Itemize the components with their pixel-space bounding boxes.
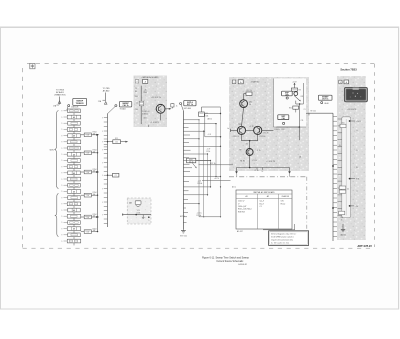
svg-text:4 SWP BD: 4 SWP BD: [251, 82, 260, 84]
svg-text:4: 4: [137, 81, 138, 83]
wire stub 2 into chart area: [289, 174, 291, 177]
svg-text:R1 R2: R1 R2: [240, 161, 245, 163]
svg-text:+4.3 V: +4.3 V: [214, 178, 220, 180]
svg-text:C31: C31: [301, 120, 304, 122]
coax connector P102: [108, 105, 117, 114]
capacitor C201: [107, 173, 119, 177]
wire connector to ladder: [181, 105, 183, 111]
svg-text:1 C4010: 1 C4010: [274, 129, 280, 131]
svg-text:C2: C2: [356, 191, 358, 193]
board ref boxes A4: [135, 79, 148, 83]
svg-text:TO A04: TO A04: [120, 108, 126, 111]
svg-text:10k: 10k: [115, 142, 118, 144]
wire control to right rail: [289, 101, 304, 113]
svg-text:R40: R40: [135, 96, 138, 98]
svg-text:Section 7B53: Section 7B53: [340, 68, 357, 72]
chassis dash-dot boundary: [229, 155, 307, 229]
svg-text:10k: 10k: [206, 115, 209, 117]
+15V feed in control box: [292, 81, 297, 88]
wire to notes box: [263, 224, 295, 230]
svg-text:R6: R6: [339, 145, 341, 147]
svg-text:10k: 10k: [87, 172, 90, 174]
svg-text:C*: C*: [238, 203, 240, 205]
junction dot mid (S10): [349, 178, 360, 181]
svg-text:10k: 10k: [87, 135, 90, 137]
svg-text:CAL: CAL: [282, 117, 285, 120]
svg-text:S(W): S(W): [49, 150, 53, 152]
svg-text:R31: R31: [289, 108, 292, 110]
resistor R310 stack: [291, 88, 300, 91]
svg-text:9: 9: [61, 210, 62, 212]
wire Q40 emitter down: [149, 113, 161, 127]
vertical wires from ladder to lower bus: [199, 107, 221, 217]
svg-text:9: 9: [61, 129, 62, 131]
sub-ladder rung +1V: [205, 113, 221, 138]
relay K1 dashed enclosure: [127, 198, 151, 224]
svg-text:R60: R60: [342, 122, 345, 124]
svg-text:9: 9: [61, 135, 62, 137]
svg-text:C4: C4: [135, 88, 137, 90]
svg-text:EXT 1k: EXT 1k: [187, 104, 193, 106]
notes box: [269, 231, 309, 246]
svg-text:EXT A40: EXT A40: [184, 107, 191, 110]
svg-text:9: 9: [61, 117, 62, 119]
svg-text:9: 9: [61, 173, 62, 175]
resistor R601: [340, 122, 346, 127]
svg-text:CAL 1k: CAL 1k: [123, 104, 129, 107]
label box EXT ATTEN: [184, 100, 196, 109]
svg-text:OUT 1k: OUT 1k: [322, 99, 328, 101]
svg-text:6: 6: [340, 82, 341, 84]
svg-text:A5 437: A5 437: [237, 230, 243, 233]
svg-text:TP12: TP12: [238, 124, 242, 126]
svg-text:C1 4k: C1 4k: [254, 170, 258, 172]
svg-text:COIL: COIL: [137, 212, 141, 214]
svg-text:R51-2: R51-2: [281, 203, 286, 205]
svg-text:10k: 10k: [87, 195, 90, 197]
wire Q40 collector right: [165, 108, 172, 110]
svg-text:R 1k: R 1k: [207, 151, 211, 153]
svg-text:R9 10k: R9 10k: [310, 110, 316, 112]
svg-text:10k: 10k: [93, 151, 96, 153]
circuit board A4 shaded area: [134, 76, 168, 128]
svg-text:9: 9: [61, 185, 62, 187]
svg-text:R154: R154: [93, 214, 97, 216]
svg-text:AB 10k: AB 10k: [340, 233, 346, 236]
wire from S2 to relay K1: [122, 213, 151, 222]
svg-text:R 9k: R 9k: [356, 179, 360, 181]
svg-text:+ 1k R: + 1k R: [356, 121, 362, 123]
svg-text:R12 1k: R12 1k: [210, 163, 216, 165]
diagram reference index box: [30, 63, 35, 68]
svg-text:C101 Q*: C101 Q*: [238, 201, 245, 203]
resistor R405: [171, 103, 178, 108]
svg-text:9: 9: [61, 166, 62, 168]
attenuator resistor box R30: [187, 158, 197, 168]
svg-text:+15 VOLTS: +15 VOLTS: [347, 109, 357, 111]
A4 block extra value labels: [135, 88, 147, 120]
svg-text:1k: 1k: [249, 104, 251, 106]
svg-text:9: 9: [61, 154, 62, 156]
svg-text:Current Source Schematic: Current Source Schematic: [216, 260, 244, 263]
svg-text:C60: C60: [340, 217, 343, 219]
svg-text:C90: C90: [281, 201, 284, 203]
svg-text:EXT 10k: EXT 10k: [180, 235, 187, 237]
ground symbol (A6): [340, 224, 346, 236]
svg-text:2k: 2k: [341, 220, 343, 222]
svg-text:R 10k: R 10k: [198, 183, 203, 185]
svg-text:he 40 OHM function switch: he 40 OHM function switch w: [271, 236, 294, 239]
svg-text:iring for interconnection d: iring for interconnection deta: [271, 238, 293, 241]
cam switch actuator bar S10: [342, 117, 351, 218]
svg-text:C3: C3: [304, 109, 306, 111]
svg-text:4A 40: 4A 40: [324, 102, 328, 105]
svg-text:R4: R4: [135, 91, 137, 93]
delta test point symbol TP1: [53, 97, 61, 108]
svg-text:C2: C2: [115, 175, 117, 177]
potentiometer circle R311: [294, 92, 301, 102]
svg-text:+5 VOLTS: +5 VOLTS: [266, 161, 275, 163]
svg-text:R4: R4: [356, 167, 358, 169]
svg-text:10k: 10k: [93, 230, 96, 232]
svg-text:9: 9: [61, 216, 62, 218]
svg-text:4x: 4x: [227, 128, 229, 130]
svg-text:9: 9: [61, 123, 62, 125]
svg-text:C40: C40: [135, 109, 138, 111]
svg-text:10k: 10k: [93, 133, 96, 135]
voltage label +1V lower: [197, 212, 203, 216]
resistors R602/R603: [339, 186, 349, 193]
delta test point symbol TP2: [98, 93, 107, 105]
svg-text:9: 9: [148, 220, 149, 222]
svg-text:C1: C1: [260, 206, 262, 208]
svg-text:R12 1k: R12 1k: [246, 90, 252, 92]
svg-text:Figure 6-11. Sweep Time Switch: Figure 6-11. Sweep Time Switch and Sweep: [202, 257, 250, 260]
ground symbol ladder: [180, 229, 187, 237]
ladder junction dots: [198, 119, 221, 204]
transistor Q123: [239, 149, 260, 156]
svg-text:AB 1k: AB 1k: [208, 118, 213, 121]
board ref boxes A5: [232, 80, 260, 84]
svg-text:+1 VOLTS: +1 VOLTS: [150, 122, 159, 124]
svg-text:TIME/DIV: TIME/DIV: [76, 103, 85, 105]
svg-text:PARTIAL A5 SWP BOARD: PARTIAL A5 SWP BOARD: [253, 191, 275, 194]
transistor Q40: [156, 104, 165, 113]
svg-text:R 10k: R 10k: [197, 215, 202, 217]
junction dot top (S10): [349, 120, 362, 123]
svg-text:4 BD 1k: 4 BD 1k: [142, 114, 148, 116]
svg-text:R44: R44: [144, 92, 147, 94]
schematic dashed boundary: [23, 64, 375, 249]
svg-text:9: 9: [61, 222, 62, 224]
svg-text:R101--C48, R44--*: R101--C48, R44--*: [238, 209, 252, 211]
svg-text:1k: 1k: [262, 171, 264, 173]
svg-text:1k: 1k: [176, 105, 178, 107]
svg-text:6-11/6-12: 6-11/6-12: [238, 264, 247, 266]
label box SWEEP TIME/DIV: [73, 98, 87, 105]
svg-text:C 1k: C 1k: [257, 150, 261, 152]
svg-text:10k: 10k: [87, 217, 90, 219]
svg-text:10k: 10k: [93, 194, 96, 196]
svg-text:C430--Q47: C430--Q47: [238, 206, 246, 208]
timing resistors R101-R106: [81, 132, 99, 234]
wire lower control run: [277, 83, 306, 140]
svg-text:R154: R154: [93, 228, 97, 230]
svg-text:C1 1k: C1 1k: [252, 160, 257, 162]
current source rail with arrows: [235, 156, 291, 175]
svg-text:+15 VOLTS: +15 VOLTS: [151, 97, 162, 99]
svg-text:(REAR INT): (REAR INT): [55, 93, 66, 96]
svg-text:R154: R154: [93, 132, 97, 134]
svg-text:R41: R41: [144, 118, 147, 120]
interconnect wire to J bus: [306, 110, 333, 115]
selector brace for S1: [49, 111, 58, 237]
resistor R301 at ladder top: [199, 107, 221, 117]
svg-text:R31: R31: [301, 96, 304, 98]
S10 contact ticks: [338, 119, 342, 216]
svg-text:R3: R3: [299, 89, 301, 91]
svg-text:R C 2k: R C 2k: [264, 133, 269, 135]
wire bus right of S1: [97, 135, 99, 232]
wire Q120 emitter to Q121: [242, 108, 244, 127]
svg-text:R154: R154: [93, 192, 97, 194]
svg-text:EXT 9: EXT 9: [180, 216, 185, 218]
label box SWP LENGTH: [282, 91, 293, 99]
svg-text:1k: 1k: [356, 130, 358, 132]
svg-text:1k: 1k: [136, 103, 138, 105]
svg-text:A2: A2: [267, 195, 269, 198]
svg-text:10k 2k: 10k 2k: [189, 161, 194, 163]
svg-text:9: 9: [61, 111, 62, 113]
coax connector P103: [180, 103, 182, 105]
coax connector P104: [321, 102, 329, 105]
voltage label +4.3V: [198, 181, 203, 185]
cam switch photo inset: [344, 87, 367, 101]
svg-text:B1--9: B1--9: [260, 203, 264, 205]
svg-text:1 AB 408: 1 AB 408: [71, 106, 78, 109]
svg-text:9: 9: [61, 228, 62, 230]
svg-text:9: 9: [61, 197, 62, 199]
svg-text:R154: R154: [93, 169, 97, 171]
svg-text:9: 9: [61, 191, 62, 193]
svg-text:10k: 10k: [87, 153, 90, 155]
label box SWP CAL: [119, 102, 131, 111]
circuit board A5 shaded area: [229, 77, 309, 171]
reference designation chart: [236, 190, 292, 233]
svg-text:9: 9: [61, 235, 62, 237]
transistor Q120: [240, 100, 253, 108]
circuit board A6 shaded area: [337, 76, 366, 240]
label box SWP CAL inner: [278, 115, 289, 125]
transistor Q122: [249, 126, 262, 134]
svg-text:A1: A1: [245, 195, 247, 198]
svg-text:R21: R21: [115, 138, 118, 140]
transistor Q121: [237, 124, 245, 135]
svg-text:10k: 10k: [87, 232, 90, 234]
svg-text:R32: R32: [282, 129, 285, 131]
svg-text:C12 R0: C12 R0: [259, 136, 265, 138]
svg-text:AT A40: AT A40: [103, 90, 110, 93]
svg-text:9: 9: [61, 148, 62, 150]
svg-text:10k: 10k: [93, 216, 96, 218]
wire lower bus joint: [199, 216, 221, 218]
svg-text:9: 9: [61, 179, 62, 181]
ladder grid junction dots: [198, 123, 221, 217]
supply rail labels between boards: [187, 161, 234, 181]
svg-text:R2: R2: [246, 143, 248, 145]
svg-text:R9: R9: [239, 149, 241, 151]
svg-text:9: 9: [61, 142, 62, 144]
svg-text:2k: 2k: [347, 188, 349, 190]
connector note: TO 7B53 INTERFACE: [55, 90, 66, 97]
svg-text:R18 R63: R18 R63: [238, 211, 245, 213]
capacitor C601: [339, 211, 345, 221]
resistor R120 top: [244, 90, 252, 100]
svg-text:9: 9: [61, 204, 62, 206]
svg-text:ART=478-03: ART=478-03: [356, 245, 372, 248]
label box SWP OUT: [318, 95, 332, 100]
emitters of Q121/Q122 join: [242, 135, 258, 149]
resistor R201: [107, 138, 128, 144]
svg-text:General diagrams only; refer t: General diagrams only; refer to t: [271, 233, 297, 236]
svg-text:PARTIAL A4 BOARD: PARTIAL A4 BOARD: [142, 76, 159, 79]
connector J1 pin bus: [332, 113, 339, 241]
svg-text:ils. The scales in 1 mm.: ils. The scales in 1 mm.: [271, 242, 290, 244]
svg-text:5: 5: [234, 82, 235, 84]
svg-text:A1: A1: [129, 202, 131, 205]
svg-text:+ 2k: + 2k: [355, 206, 358, 208]
svg-text:2k: 2k: [356, 150, 358, 152]
figure caption: [202, 257, 250, 266]
svg-text:C6: C6: [339, 185, 341, 187]
svg-text:R154: R154: [93, 150, 97, 152]
svg-text:R12 C4: R12 C4: [233, 136, 239, 138]
board ref boxes A6: [339, 80, 349, 84]
svg-text:9: 9: [61, 160, 62, 162]
switch S3 contact ladder bus: [183, 111, 220, 229]
switch S2 contact bus: [102, 113, 107, 227]
resistor R401 ladder in A4: [135, 86, 150, 125]
connector note: TO 7B53 AUX: [102, 88, 110, 92]
base wire across Q121/Q122: [227, 128, 273, 134]
rotary switch S1 wafer sections: [61, 109, 80, 245]
voltage label +5V on ladder: [207, 148, 212, 153]
svg-text:9: 9: [61, 241, 62, 243]
svg-text:10k: 10k: [93, 171, 96, 173]
junction dot low (S10): [349, 205, 358, 208]
svg-text:Q1--9: Q1--9: [260, 201, 264, 203]
coax connector P101: [67, 105, 78, 110]
wire stub into chart area: [236, 174, 238, 177]
